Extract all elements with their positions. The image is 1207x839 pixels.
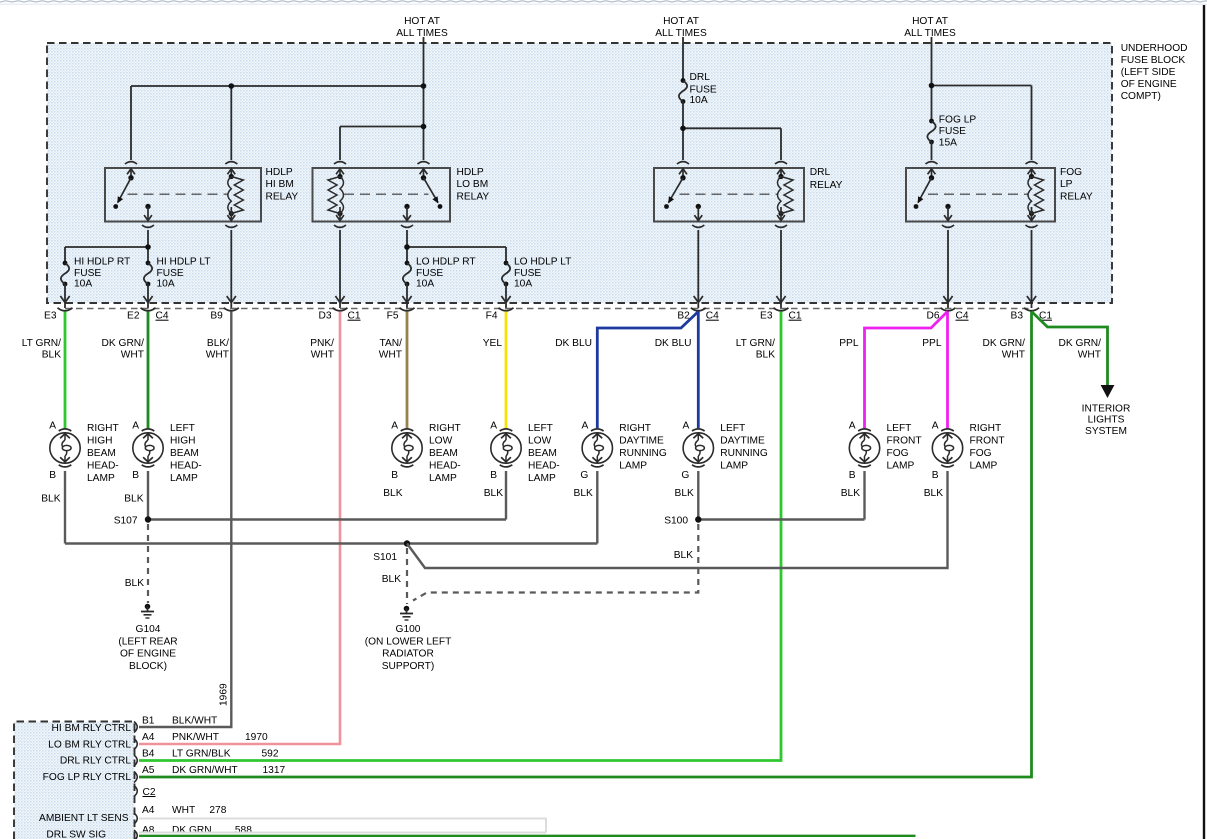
svg-text:SYSTEM: SYSTEM xyxy=(1085,426,1127,437)
svg-text:ALL TIMES: ALL TIMES xyxy=(904,28,956,39)
svg-text:DRL RLY CTRL: DRL RLY CTRL xyxy=(60,756,131,767)
svg-text:FUSE: FUSE xyxy=(939,126,966,137)
svg-text:B9: B9 xyxy=(210,311,223,322)
svg-text:10A: 10A xyxy=(416,278,434,289)
svg-text:G: G xyxy=(580,470,588,481)
label: right high beam headlamp xyxy=(87,423,119,484)
svg-text:DK GRN/: DK GRN/ xyxy=(1059,338,1102,349)
svg-text:10A: 10A xyxy=(74,278,92,289)
svg-text:DK GRN/: DK GRN/ xyxy=(102,338,145,349)
wire DK BLU B2 to left daytime running lamp xyxy=(697,312,700,429)
relay U3 switch contacts xyxy=(664,175,701,209)
svg-text:BLK: BLK xyxy=(924,488,943,499)
wire label DK BLU at x=691.5 xyxy=(655,338,692,349)
svg-text:DRL: DRL xyxy=(690,72,711,83)
relay U1 pin 30 (top, switch) xyxy=(125,162,137,178)
svg-text:FUSE BLOCK: FUSE BLOCK xyxy=(1121,55,1186,66)
label: left daytime running lamp xyxy=(720,423,768,471)
label G104 (LEFT REAR OF ENGINE BLOCK) xyxy=(118,624,177,672)
label BLK under left fog lamp xyxy=(841,488,860,499)
wire label DK GRN/ WHT at x=1025 xyxy=(983,338,1026,360)
svg-text:C1: C1 xyxy=(348,311,361,322)
module pin B1 BLK/WHT xyxy=(142,716,217,727)
module connector arc A4 WHT xyxy=(134,813,137,824)
connector terminal D3/C1 xyxy=(318,308,360,322)
svg-text:ALL TIMES: ALL TIMES xyxy=(396,28,448,39)
module signal label FOG LP RLY CTRL xyxy=(43,772,132,783)
svg-text:A: A xyxy=(391,421,398,432)
svg-text:LAMP: LAMP xyxy=(170,473,198,484)
label: HI HDLP RT FUSE 10A xyxy=(74,256,130,289)
label G100 (ON LOWER LEFT RADIATOR SUPPORT) xyxy=(365,624,452,672)
label BLK under right high beam xyxy=(41,494,60,505)
relay U2 box: HDLP LO BM RELAY xyxy=(313,168,451,222)
wire label TAN/ WHT at x=402 xyxy=(379,338,402,360)
lamp: right front fog lamp xyxy=(932,421,963,481)
svg-text:LT GRN/BLK: LT GRN/BLK xyxy=(172,749,231,760)
wire label YEL at x=502 xyxy=(483,338,503,349)
wire DK GRN/WHT C1 branch to interior lights xyxy=(1032,312,1108,387)
wire: bus to HI BM relay xyxy=(131,86,424,160)
svg-text:1969: 1969 xyxy=(219,683,230,706)
svg-text:PPL: PPL xyxy=(922,338,942,349)
svg-text:A: A xyxy=(132,421,139,432)
svg-text:HOT AT: HOT AT xyxy=(912,16,948,27)
label: LO HDLP LT FUSE 10A xyxy=(514,256,571,289)
wire: U3 out to B2 xyxy=(694,230,703,308)
svg-text:DRL: DRL xyxy=(810,167,831,178)
label BLK under right daytime lamp xyxy=(574,488,593,499)
fuse: FOG LP FUSE 15A xyxy=(927,119,935,145)
svg-text:RIGHT: RIGHT xyxy=(87,423,119,434)
lamp: left low beam headlamp xyxy=(490,421,521,481)
svg-text:DAYTIME: DAYTIME xyxy=(720,436,765,447)
relay U4 switch contacts xyxy=(914,175,951,209)
relay U3 pin bottom switch out xyxy=(692,207,704,227)
svg-text:RELAY: RELAY xyxy=(266,192,299,203)
svg-text:B4: B4 xyxy=(142,749,155,760)
wire: DRL fuse to DRL relay xyxy=(683,102,781,161)
dashed BLK S100 to G100 xyxy=(413,524,698,601)
svg-text:E2: E2 xyxy=(127,311,140,322)
fuse: LO HDLP RT FUSE 10A xyxy=(403,261,411,287)
svg-text:PNK/WHT: PNK/WHT xyxy=(172,732,219,743)
wire label LT GRN/ BLK at x=775 xyxy=(736,338,775,360)
wire: HI RT fuse to E3 xyxy=(60,284,69,308)
svg-text:OF ENGINE: OF ENGINE xyxy=(120,649,176,660)
svg-text:F5: F5 xyxy=(387,311,399,322)
svg-text:C4: C4 xyxy=(956,311,969,322)
right page frame line xyxy=(1203,5,1205,839)
junction dot fog bus xyxy=(929,83,935,89)
svg-text:LO HDLP LT: LO HDLP LT xyxy=(514,256,571,267)
wire DK BLU B2 to right daytime running lamp xyxy=(597,312,698,429)
connector terminal B9 xyxy=(210,308,238,322)
connector label C2 xyxy=(143,787,156,798)
label: HDLP LO BM RELAY xyxy=(457,167,490,203)
module signal label LO BM RLY CTRL xyxy=(48,739,131,750)
dashed BLK S101 to G100 xyxy=(406,548,408,604)
wire BLK left daytime lamp to S100 xyxy=(697,471,699,520)
underhood fuse block (dashed box) xyxy=(47,43,1112,303)
svg-text:HI HDLP LT: HI HDLP LT xyxy=(157,256,211,267)
arrow to interior lights system xyxy=(1101,385,1115,398)
svg-text:LIGHTS: LIGHTS xyxy=(1088,415,1125,426)
svg-text:LAMP: LAMP xyxy=(887,460,915,471)
label: INTERIOR LIGHTS SYSTEM xyxy=(1082,404,1131,438)
lamp: right high beam headlamp xyxy=(49,421,80,481)
connector terminal E2/C4 xyxy=(127,308,169,322)
svg-text:AMBIENT LT SENS: AMBIENT LT SENS xyxy=(39,813,129,824)
svg-text:G104: G104 xyxy=(136,624,161,635)
relay U2 coil xyxy=(328,174,344,216)
svg-text:LOW: LOW xyxy=(429,436,453,447)
connector terminal E3/C1 xyxy=(760,308,802,322)
svg-text:HOT AT: HOT AT xyxy=(663,16,699,27)
svg-text:HIGH: HIGH xyxy=(87,436,112,447)
svg-text:RUNNING: RUNNING xyxy=(619,448,667,459)
svg-text:COMPT): COMPT) xyxy=(1121,91,1161,102)
relay U3 dashed armature link xyxy=(680,193,778,195)
relay U2 dashed armature link xyxy=(344,193,429,195)
svg-text:278: 278 xyxy=(209,805,226,816)
lamp: right daytime running lamp xyxy=(580,421,612,481)
fuse: HI HDLP RT FUSE 10A xyxy=(61,261,69,287)
label: FOG LP RELAY xyxy=(1060,167,1093,203)
module pin B4 LT GRN/BLK xyxy=(142,749,279,760)
svg-text:1317: 1317 xyxy=(263,765,286,776)
svg-text:WHT: WHT xyxy=(1078,349,1101,360)
label BLK on G100 drop xyxy=(382,574,401,585)
wire label LT GRN/ BLK at x=61 xyxy=(22,338,61,360)
svg-text:DK GRN/WHT: DK GRN/WHT xyxy=(172,765,238,776)
wire label PPL at x=858.5 xyxy=(839,338,859,349)
svg-text:WHT: WHT xyxy=(379,349,402,360)
lamp: right low beam headlamp xyxy=(391,421,422,481)
label: FOG LP FUSE 15A xyxy=(939,115,977,149)
svg-text:DRL SW SIG: DRL SW SIG xyxy=(46,830,106,839)
relay U3 coil xyxy=(778,174,794,216)
svg-text:WHT: WHT xyxy=(1002,349,1025,360)
svg-text:(ON LOWER LEFT: (ON LOWER LEFT xyxy=(365,636,452,647)
label S107 xyxy=(114,516,138,527)
wire: U4 coil to B3 xyxy=(1027,230,1036,308)
top page-break strip xyxy=(0,1,1207,4)
splice S101 dot xyxy=(404,540,410,546)
svg-text:HEAD-: HEAD- xyxy=(170,460,202,471)
node: HOT AT ALL TIMES (fog feed) xyxy=(904,16,956,39)
svg-text:LO HDLP RT: LO HDLP RT xyxy=(416,256,476,267)
svg-text:BEAM: BEAM xyxy=(528,448,557,459)
svg-text:LEFT: LEFT xyxy=(720,423,745,434)
svg-text:HI HDLP RT: HI HDLP RT xyxy=(74,256,130,267)
svg-text:LT GRN/: LT GRN/ xyxy=(22,338,61,349)
svg-text:BLK: BLK xyxy=(574,488,593,499)
svg-text:S101: S101 xyxy=(373,552,397,563)
junction dot at HI fuse tee xyxy=(145,244,151,250)
svg-text:BLK/: BLK/ xyxy=(207,338,229,349)
connector terminal F5 xyxy=(387,308,415,322)
connector terminal E3 xyxy=(44,308,72,322)
label: UNDERHOOD FUSE BLOCK (LEFT SIDE OF ENGINE COMPT) xyxy=(1121,43,1188,102)
svg-text:BLOCK): BLOCK) xyxy=(129,661,167,672)
svg-text:C2: C2 xyxy=(143,787,156,798)
svg-text:ALL TIMES: ALL TIMES xyxy=(655,28,707,39)
relay U2 pin top coil xyxy=(334,162,346,178)
svg-text:BLK: BLK xyxy=(124,494,143,505)
wire: LO LT fuse to F4 xyxy=(501,284,510,308)
svg-text:LAMP: LAMP xyxy=(970,460,998,471)
svg-text:OF ENGINE: OF ENGINE xyxy=(1121,79,1177,90)
wire DK GRN A8 (ckt 588) xyxy=(139,835,916,837)
svg-text:FUSE: FUSE xyxy=(690,85,717,96)
svg-text:LAMP: LAMP xyxy=(619,460,647,471)
label: LO HDLP RT FUSE 10A xyxy=(416,256,476,289)
relay U3 pin top switch xyxy=(677,162,689,178)
relay U4 pin bottom switch out xyxy=(942,207,954,227)
wire YEL F4 to left low beam xyxy=(505,312,508,429)
svg-text:DK BLU: DK BLU xyxy=(555,338,592,349)
svg-text:LEFT: LEFT xyxy=(170,423,195,434)
relay U1 coil xyxy=(228,174,244,216)
wire DK GRN/WHT B3 to module pin A5 (ckt 1317) xyxy=(139,312,1032,778)
svg-text:DAYTIME: DAYTIME xyxy=(619,436,664,447)
lamp: left daytime running lamp xyxy=(681,421,713,481)
svg-text:HEAD-: HEAD- xyxy=(87,460,119,471)
wire label DK GRN/ WHT at x=144 xyxy=(102,338,145,360)
svg-text:BEAM: BEAM xyxy=(170,448,199,459)
junction dot DRL branch xyxy=(680,126,686,132)
label S100 xyxy=(664,516,688,527)
svg-text:1970: 1970 xyxy=(245,732,268,743)
wire BLK/WHT B9 to module pin B1 (ckt 1969) xyxy=(139,312,231,728)
svg-text:UNDERHOOD: UNDERHOOD xyxy=(1121,43,1188,54)
svg-text:592: 592 xyxy=(262,749,279,760)
svg-text:C4: C4 xyxy=(706,311,719,322)
label BLK under right fog lamp xyxy=(924,488,943,499)
junction dots on HI BM bus xyxy=(229,83,427,89)
svg-text:(LEFT SIDE: (LEFT SIDE xyxy=(1121,67,1176,78)
wire: U1 out to headlamp fuses xyxy=(65,230,148,263)
svg-text:LT GRN/: LT GRN/ xyxy=(736,338,775,349)
wire label BLK/ WHT at x=229 xyxy=(206,338,229,360)
relay U3 pin top coil xyxy=(775,162,787,178)
fuse: HI HDLP LT FUSE 10A xyxy=(144,261,152,287)
svg-text:WHT: WHT xyxy=(172,805,195,816)
svg-text:YEL: YEL xyxy=(483,338,503,349)
module connector arc A5 xyxy=(134,772,137,783)
svg-text:FOG LP: FOG LP xyxy=(939,115,977,126)
svg-text:B: B xyxy=(932,470,939,481)
svg-text:RIGHT: RIGHT xyxy=(619,423,651,434)
svg-text:HDLP: HDLP xyxy=(457,167,484,178)
svg-text:BLK: BLK xyxy=(383,488,402,499)
svg-text:A4: A4 xyxy=(142,732,155,743)
svg-text:RUNNING: RUNNING xyxy=(720,448,768,459)
ground G100 xyxy=(400,606,413,620)
wire BLK right high beam to bus xyxy=(64,471,66,544)
label BLK under left daytime lamp xyxy=(675,488,694,499)
wire: feed drop to DRL fuse xyxy=(682,37,684,81)
relay U4 pin bottom coil xyxy=(1026,207,1038,227)
svg-text:S107: S107 xyxy=(114,516,138,527)
relay U1 pin 85 (top, coil) xyxy=(225,162,237,178)
svg-text:RADIATOR: RADIATOR xyxy=(382,649,434,660)
svg-text:A4: A4 xyxy=(142,805,155,816)
svg-text:(LEFT REAR: (LEFT REAR xyxy=(118,636,177,647)
svg-text:10A: 10A xyxy=(514,278,532,289)
relay U3 pin bottom coil xyxy=(775,207,787,227)
wire: HI LT fuse to E2 xyxy=(143,284,152,308)
svg-text:LAMP: LAMP xyxy=(429,473,457,484)
svg-text:RELAY: RELAY xyxy=(1060,192,1093,203)
module connector arc C2 xyxy=(134,786,137,797)
node: HOT AT ALL TIMES (headlamp feed) xyxy=(396,16,448,39)
wire: feed drop to HDLP relays xyxy=(423,37,425,160)
wire PPL D6 to left front fog lamp xyxy=(865,312,948,429)
module signal label HI BM RLY CTRL xyxy=(52,723,132,734)
svg-text:B: B xyxy=(49,470,56,481)
svg-text:A: A xyxy=(49,421,56,432)
svg-text:B: B xyxy=(849,470,856,481)
svg-text:G: G xyxy=(681,470,689,481)
svg-text:BLK: BLK xyxy=(125,578,144,589)
module signal label DRL RLY CTRL xyxy=(60,756,131,767)
svg-text:LP: LP xyxy=(1060,179,1073,190)
svg-text:A: A xyxy=(849,421,856,432)
label BLK under right low beam xyxy=(383,488,402,499)
relay U2 pin bottom switch out xyxy=(401,207,413,227)
svg-text:BLK: BLK xyxy=(42,349,61,360)
fuse: DRL FUSE 10A xyxy=(679,78,687,104)
label: right daytime running lamp xyxy=(619,423,667,471)
svg-text:FRONT: FRONT xyxy=(887,436,922,447)
label: right front fog lamp xyxy=(970,423,1005,471)
svg-text:BLK: BLK xyxy=(41,494,60,505)
connector terminal B2/C4 xyxy=(677,308,719,322)
wire: U1 coil to B9 xyxy=(227,230,236,308)
junction dot at LO fuse tee xyxy=(404,244,410,250)
label BLK on S100 drop xyxy=(674,550,693,561)
svg-text:BLK: BLK xyxy=(756,349,775,360)
svg-text:RIGHT: RIGHT xyxy=(429,423,461,434)
label: HDLP HI BM RELAY xyxy=(266,167,299,203)
svg-text:15A: 15A xyxy=(939,137,957,148)
svg-text:BEAM: BEAM xyxy=(429,448,458,459)
lamp: left high beam headlamp xyxy=(132,421,163,481)
svg-text:BLK: BLK xyxy=(484,488,503,499)
svg-text:LAMP: LAMP xyxy=(720,460,748,471)
svg-text:RIGHT: RIGHT xyxy=(970,423,1002,434)
module pin A8 DK GRN xyxy=(142,825,252,836)
ground bus to S101 xyxy=(65,542,597,544)
svg-text:HEAD-: HEAD- xyxy=(429,460,461,471)
svg-text:TAN/: TAN/ xyxy=(380,338,403,349)
svg-text:HDLP: HDLP xyxy=(266,167,293,178)
svg-text:B: B xyxy=(132,470,139,481)
svg-text:FOG: FOG xyxy=(1060,167,1082,178)
relay U4 coil xyxy=(1028,174,1044,216)
module pin A5 DK GRN/WHT xyxy=(142,765,285,776)
svg-text:F4: F4 xyxy=(486,311,498,322)
wire label PNK/ WHT at x=334 xyxy=(310,338,334,360)
relay U2 switch contacts xyxy=(404,175,442,209)
module connector arc B4 xyxy=(134,755,137,766)
svg-text:LO BM RLY CTRL: LO BM RLY CTRL xyxy=(48,739,131,750)
svg-text:588: 588 xyxy=(235,825,252,836)
splice S100 line xyxy=(698,518,864,520)
label: HI HDLP LT FUSE 10A xyxy=(157,256,211,289)
label: left low beam headlamp xyxy=(528,423,560,484)
relay U2 pin bottom coil xyxy=(334,207,346,227)
svg-text:RELAY: RELAY xyxy=(457,192,490,203)
svg-text:WHT: WHT xyxy=(121,349,144,360)
wire label DK GRN/ WHT at x=1101 xyxy=(1059,338,1102,360)
connector dashed tie line xyxy=(65,308,1032,310)
svg-text:BLK: BLK xyxy=(674,550,693,561)
svg-text:LAMP: LAMP xyxy=(528,473,556,484)
svg-text:BLK: BLK xyxy=(675,488,694,499)
label: DRL FUSE 10A xyxy=(690,72,717,106)
dashed BLK S107 to G104 xyxy=(147,524,149,603)
wire: U2 out to low beam fuses xyxy=(407,230,506,263)
label S101 xyxy=(373,552,397,563)
svg-text:S100: S100 xyxy=(664,516,688,527)
svg-text:PPL: PPL xyxy=(839,338,859,349)
wire BLK left high beam to S107 xyxy=(147,471,149,520)
module pin A4 PNK/WHT xyxy=(142,732,268,743)
svg-text:SUPPORT): SUPPORT) xyxy=(382,661,434,672)
svg-text:FOG LP RLY CTRL: FOG LP RLY CTRL xyxy=(43,772,132,783)
svg-text:C1: C1 xyxy=(789,311,802,322)
label ckt 1969 (vertical) xyxy=(219,683,230,706)
wire BLK left low beam to S107 line xyxy=(505,471,507,520)
svg-text:HEAD-: HEAD- xyxy=(528,460,560,471)
svg-text:INTERIOR: INTERIOR xyxy=(1082,404,1131,415)
wire PNK/WHT D3 to module pin A4 (ckt 1970) xyxy=(139,312,340,745)
label: DRL RELAY xyxy=(810,167,843,191)
svg-text:HIGH: HIGH xyxy=(170,436,195,447)
connector terminal D6/C4 xyxy=(926,308,968,322)
svg-text:BLK/WHT: BLK/WHT xyxy=(172,716,217,727)
wire: U2 coil to D3 xyxy=(335,230,344,308)
svg-text:BLK: BLK xyxy=(841,488,860,499)
label BLK on G104 drop xyxy=(125,578,144,589)
wire label DK BLU at x=592 xyxy=(555,338,592,349)
relay U1 box: HDLP HI BM RELAY xyxy=(105,168,261,222)
relay U1 switch contacts xyxy=(113,175,150,209)
svg-text:HI BM: HI BM xyxy=(266,179,294,190)
label: right low beam headlamp xyxy=(429,423,461,484)
svg-text:E3: E3 xyxy=(44,311,57,322)
splice S107 line xyxy=(148,518,506,520)
wire: feed drop to FOG LP fuse xyxy=(931,37,933,121)
module signal label AMBIENT LT SENS xyxy=(39,813,129,824)
svg-text:A: A xyxy=(490,421,497,432)
label: left high beam headlamp xyxy=(170,423,202,484)
wire: U3 coil to E3 xyxy=(776,230,785,308)
relay U1 pin 86 (bottom, coil) xyxy=(225,207,237,227)
splice S107 dot xyxy=(145,516,151,522)
wire LT GRN/BLK E3 to right high beam xyxy=(64,312,67,429)
svg-text:FOG: FOG xyxy=(887,448,909,459)
label BLK under left low beam xyxy=(484,488,503,499)
wire: FOG fuse to relay xyxy=(931,142,933,160)
wire label PPL at x=941.5 xyxy=(922,338,942,349)
svg-text:BLK: BLK xyxy=(382,574,401,585)
wire: LO RT fuse to F5 xyxy=(402,284,411,308)
svg-text:A8: A8 xyxy=(142,825,155,836)
